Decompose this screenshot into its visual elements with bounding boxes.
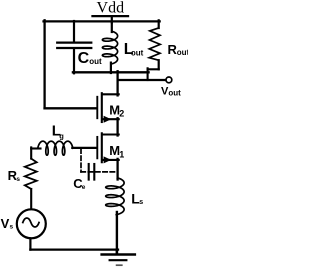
capacitor Cout stem bottom [73,49,75,73]
node output drain vertical [116,71,118,95]
left bias wire vertical [43,20,45,108]
capacitor Cout plate top [57,41,91,43]
ground bar 3 [117,264,122,266]
svg-text:1: 1 [119,149,124,159]
resistor Rs zigzag [25,159,37,189]
wire M2 source to M1 drain [116,118,118,135]
inductor Lout coil [102,31,117,64]
transistor M1 label [109,143,124,159]
transistor M1 drain wire [103,133,119,135]
resistor Rs label [8,168,21,183]
svg-text:s: s [10,224,14,231]
Vdd supply bar [93,15,129,17]
ground bar 2 [110,259,127,261]
inductor Lg lead left [31,147,40,149]
svg-text:out: out [89,57,102,66]
Vout terminal circle [166,77,172,83]
inductor Ls coil [106,178,124,215]
transistor M1 channel bar [101,133,103,162]
svg-text:e: e [82,184,86,191]
capacitor Ce dashed lead horizontal [81,171,117,173]
transistor M2 source wire with arrow [103,118,119,120]
svg-text:Vdd: Vdd [97,0,125,17]
svg-text:s: s [16,176,20,183]
resistor Rout lead bottom [158,60,160,69]
resistor Rout jog vertical [147,68,149,80]
svg-text:C: C [78,50,90,67]
inductor Ls lead bottom [116,212,118,253]
source Vs lead bottom [29,238,31,249]
resistor Rout jog horizontal [148,68,159,70]
transistor M2 label [109,103,124,119]
bottom return wire [30,248,118,250]
svg-text:out: out [131,48,144,57]
transistor M1 source wire with arrow [103,159,119,161]
ground stem [116,250,118,254]
Vdd stem [111,16,113,22]
transistor M1 gate bar [96,137,98,158]
source Vs label [1,216,14,231]
capacitor Ce plate right [93,164,95,180]
resistor Rs lead bottom [30,189,32,209]
capacitor Cout plate bottom [57,47,91,49]
inductor Lout label [124,41,144,58]
source Vs circle [17,209,46,238]
inductor Lout lead bottom [110,63,112,73]
svg-text:2: 2 [119,108,124,118]
resistor Rs lead top [30,147,32,158]
transistor M2 channel bar [101,93,103,122]
resistor Rout label [168,42,190,57]
Vdd label [97,0,125,17]
capacitor Ce dashed lead vertical [80,149,82,172]
inductor Lout lead top [111,21,113,32]
resistor Rout lead top [158,20,160,28]
M2 gate wire [45,107,97,109]
tank bottom junction wire [73,71,149,73]
wire M1 source down [116,159,118,180]
ground bar 1 [102,253,135,255]
svg-text:out: out [168,89,181,98]
svg-text:out: out [177,48,188,57]
inductor Lg coil [38,141,73,155]
capacitor Cout stem top [73,21,75,42]
capacitor Ce label [73,176,86,191]
capacitor Cout label [78,50,102,67]
svg-text:V: V [1,216,10,231]
transistor M2 drain wire [103,93,119,95]
inductor Lg label [52,123,64,141]
top rail [44,20,160,22]
transistor M2 gate bar [96,97,98,118]
svg-text:s: s [139,199,143,206]
inductor Ls label [131,190,143,206]
Vout wire [118,79,166,81]
transistor M1 gate wire from Lg [72,147,96,149]
source Vs sine wave [23,218,39,227]
svg-text:g: g [59,131,64,140]
resistor Rout zigzag [149,28,160,60]
capacitor Ce plate left [88,164,90,180]
Vout label [161,86,181,98]
